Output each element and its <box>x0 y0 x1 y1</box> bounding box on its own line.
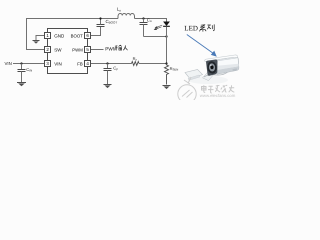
glyph 系 <box>199 25 206 32</box>
resistor Rx <box>132 62 140 66</box>
top sun shield <box>205 55 238 62</box>
svg-text:SW: SW <box>54 47 62 52</box>
pin 5 <box>72 47 90 53</box>
IC U1 body <box>48 29 88 74</box>
pin 6 <box>71 33 91 39</box>
svg-text:Lo: Lo <box>117 7 121 13</box>
junction dot Cboot/top rail <box>99 17 101 19</box>
watermark Chinese text 电子发烧友 <box>202 85 235 93</box>
junction dot CF <box>106 62 108 64</box>
svg-text:FB: FB <box>77 61 83 66</box>
inductor Lo <box>118 14 135 19</box>
bracket arm <box>203 72 215 81</box>
glyph 入 <box>123 45 127 50</box>
body lower shading <box>217 66 239 74</box>
LED D1 <box>166 19 168 22</box>
watermark logo circle <box>178 77 196 103</box>
rear connector <box>233 68 238 71</box>
resistor RSEN <box>165 64 169 85</box>
pin 4 <box>77 61 90 67</box>
wire pin1 GND to ground <box>36 36 45 41</box>
LED light arrows <box>154 25 162 30</box>
capacitor CF <box>104 64 112 85</box>
svg-text:VIN: VIN <box>5 61 12 66</box>
svg-text:PWM: PWM <box>105 47 117 52</box>
wire pin6 BOOT to Cboot <box>91 27 101 36</box>
wire top rail SW segment <box>26 18 118 20</box>
svg-text:VIN: VIN <box>54 61 62 66</box>
wire Rx to Rsen node <box>139 63 167 65</box>
camera photo <box>185 55 239 84</box>
wire pin4 FB to Rx <box>91 63 132 65</box>
shadow <box>188 76 228 84</box>
pin 1 <box>45 33 66 39</box>
junction dot Rsen node <box>165 62 167 64</box>
junction dot at LED line <box>165 35 167 37</box>
lens rings <box>207 61 218 74</box>
ground at pin1 <box>33 41 40 44</box>
seam under shield <box>218 58 237 61</box>
svg-text:Co: Co <box>147 17 152 23</box>
front hood dark <box>206 59 217 75</box>
pin 2 <box>45 47 63 53</box>
svg-text:BOOT: BOOT <box>71 33 84 38</box>
svg-text:LED: LED <box>184 24 198 32</box>
cable <box>204 71 229 77</box>
glyph 输 <box>115 45 122 50</box>
junction dot CIN <box>20 62 22 64</box>
wire top rail output segment <box>135 18 168 20</box>
svg-text:RSEN: RSEN <box>170 66 179 72</box>
camera body <box>217 57 239 74</box>
svg-text:CF: CF <box>113 66 118 72</box>
capacitor CIN <box>18 64 26 83</box>
wire pin5 PWM stub <box>91 49 104 51</box>
svg-text:PWM: PWM <box>72 47 83 52</box>
capacitor CBOOT <box>97 19 105 27</box>
svg-text:www.elecfans.com: www.elecfans.com <box>200 93 236 98</box>
junction dot Co/top rail <box>142 17 144 19</box>
svg-text:GND: GND <box>54 33 65 38</box>
capacitor Co <box>140 19 148 37</box>
ground below CF <box>104 85 112 89</box>
ground below CIN <box>17 83 26 87</box>
wall plate <box>185 69 203 78</box>
ground below RSEN <box>163 86 171 90</box>
svg-text:CIN: CIN <box>26 67 32 73</box>
svg-text:Rx: Rx <box>133 56 138 62</box>
pin 3 <box>45 61 62 67</box>
blue pointer arrow <box>187 35 216 57</box>
wire VIN to pin3 <box>13 63 45 65</box>
glyph 列 <box>207 24 214 30</box>
wire pin2 SW left and up to top rail <box>27 19 45 50</box>
svg-text:CBOOT: CBOOT <box>106 19 118 25</box>
wire Co bottom to LED cathode line <box>144 36 167 38</box>
